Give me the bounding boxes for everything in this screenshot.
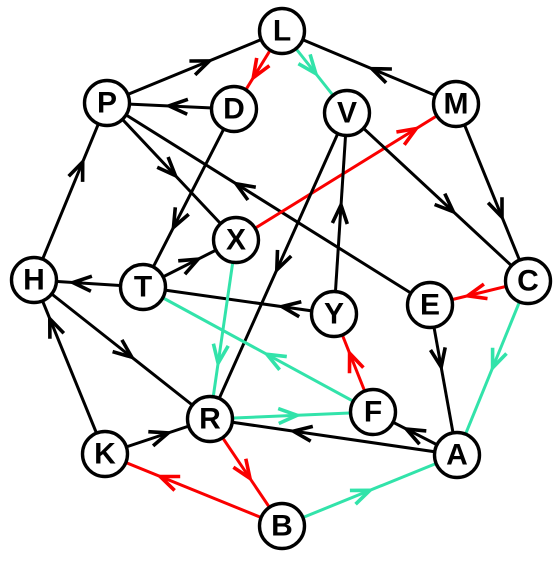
wire edge T->H black [34, 276, 143, 291]
svg-text:B: B [271, 510, 293, 543]
node L [260, 9, 305, 54]
wire edge L->D red [234, 31, 282, 109]
wire edge M->L black [282, 31, 456, 104]
wire edge A->F black [373, 412, 457, 455]
svg-text:C: C [517, 265, 539, 298]
wire edge X->M red [236, 104, 456, 240]
node R [188, 397, 233, 442]
node X [214, 218, 259, 263]
wire edge K->H black [34, 280, 105, 454]
node V [325, 91, 370, 136]
svg-text:K: K [94, 438, 116, 471]
wire edge L->V teal [282, 31, 347, 113]
wire edge F->T teal [143, 287, 373, 412]
wire edge P->L black [107, 31, 282, 103]
svg-text:V: V [337, 97, 357, 130]
node B [260, 504, 305, 549]
svg-text:P: P [97, 87, 117, 120]
svg-text:R: R [199, 403, 221, 436]
wire edge A->R black [210, 419, 457, 455]
svg-text:H: H [23, 264, 45, 297]
node K [83, 432, 128, 477]
wire edge F->Y red [334, 314, 373, 412]
wire edge K->R black [105, 419, 210, 454]
node Y [312, 292, 357, 337]
wire edge P->X black [107, 103, 236, 240]
node H [12, 258, 57, 303]
wire edge B->K red [105, 454, 282, 526]
wire edge R->B red [210, 419, 282, 526]
wire edge R->F teal [210, 409, 373, 424]
node E [408, 283, 453, 328]
svg-text:X: X [226, 224, 246, 257]
wire edge E->A black [430, 305, 457, 455]
svg-text:F: F [364, 396, 382, 429]
wire edge C->E red [430, 281, 528, 305]
node P [85, 81, 130, 126]
svg-text:Y: Y [324, 298, 344, 331]
wire edge X->R teal [210, 240, 236, 419]
wire edge V->C black [347, 113, 528, 281]
wire edge H->P black [34, 103, 107, 280]
svg-text:A: A [446, 439, 468, 472]
node A [435, 433, 480, 478]
wire edge T->X black [143, 240, 236, 287]
svg-text:E: E [420, 289, 440, 322]
wire edge Y->T black [143, 287, 334, 317]
svg-text:D: D [223, 93, 245, 126]
wire edge E->P black [107, 103, 430, 305]
wire edge D->P black [107, 99, 234, 114]
node D [212, 87, 257, 132]
wire edge D->T black [143, 109, 234, 287]
node T [121, 265, 166, 310]
svg-text:L: L [273, 15, 291, 48]
wire edge Y->V black [332, 113, 347, 314]
wire edge C->A teal [457, 281, 528, 455]
wire edge B->A teal [282, 455, 457, 526]
wire edge V->R black [210, 113, 347, 419]
svg-text:T: T [134, 271, 152, 304]
node F [351, 390, 396, 435]
wire edge H->R black [34, 280, 210, 419]
svg-text:M: M [444, 88, 469, 121]
node M [434, 82, 479, 127]
node C [506, 259, 551, 304]
wire edge M->C black [456, 104, 528, 281]
